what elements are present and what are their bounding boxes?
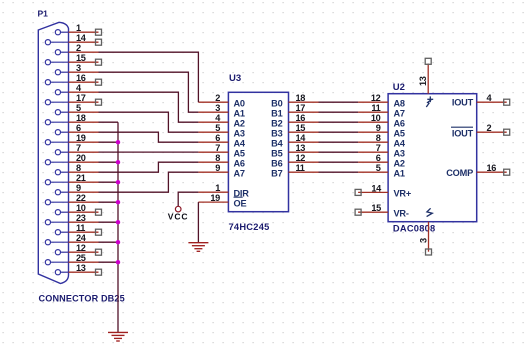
svg-text:B3: B3	[271, 128, 282, 138]
wire U3.B0 to U2.A8	[319, 101, 359, 103]
no-connect square P1 pin 11	[96, 229, 102, 235]
wire U3.B2 to U2.A6	[319, 121, 359, 123]
wire P1.22 to ground bus	[99, 201, 119, 203]
P1 pin 10	[55, 203, 98, 215]
svg-text:17: 17	[76, 93, 86, 103]
wire P1.7 to U3.A5	[99, 151, 199, 153]
svg-text:7: 7	[215, 143, 220, 153]
svg-text:U2: U2	[393, 82, 405, 93]
P1 pin 4	[55, 83, 98, 95]
IC U2 DAC0808 body	[388, 94, 477, 222]
svg-text:A1: A1	[234, 108, 245, 118]
U3 pin 6 (A4)	[198, 133, 246, 148]
P1 pin 16	[45, 73, 98, 85]
svg-text:B6: B6	[271, 158, 282, 168]
svg-text:21: 21	[76, 173, 86, 183]
P1 pin 22	[45, 193, 98, 205]
svg-text:15: 15	[76, 53, 86, 63]
U2 pin 5 (A1)	[358, 163, 405, 178]
svg-text:8: 8	[215, 153, 220, 163]
U3 pin 8 (A6)	[198, 153, 245, 168]
wire U3.OE to ground	[197, 202, 199, 243]
svg-text:11: 11	[296, 163, 305, 173]
svg-text:8: 8	[76, 163, 81, 173]
svg-text:A8: A8	[394, 98, 405, 108]
svg-text:B4: B4	[271, 138, 283, 148]
wire P1.5 to U3.A3	[99, 112, 199, 132]
svg-text:A2: A2	[394, 158, 405, 168]
U2 VCC power arrow glyph (top)	[426, 96, 433, 107]
U3 pin 15 (B3)	[271, 123, 318, 138]
P1 pin 5	[55, 103, 98, 115]
svg-text:6: 6	[376, 153, 381, 163]
svg-text:A7: A7	[234, 168, 245, 178]
svg-text:A1: A1	[394, 168, 405, 178]
svg-text:11: 11	[371, 103, 380, 113]
U2 pin 9 (A5)	[358, 123, 405, 138]
svg-text:18: 18	[296, 93, 306, 103]
svg-text:A6: A6	[394, 118, 405, 128]
U2 pin 2 (IOUT bar)	[451, 123, 507, 139]
svg-text:A4: A4	[234, 138, 246, 148]
wire P1.9 to U3.A7	[99, 172, 199, 192]
U3 pin 17 (B1)	[271, 103, 318, 118]
svg-text:15: 15	[371, 203, 381, 213]
svg-text:25: 25	[76, 253, 86, 263]
P1 pin 25	[45, 253, 98, 265]
svg-text:16: 16	[76, 73, 86, 83]
wire P1.25 to ground bus	[99, 261, 119, 263]
svg-text:VR+: VR+	[394, 189, 412, 199]
P1 pin 1	[55, 23, 98, 35]
svg-text:A6: A6	[234, 158, 245, 168]
no-connect square P1 pin 15	[96, 59, 102, 65]
svg-text:19: 19	[76, 133, 86, 143]
svg-text:2: 2	[487, 123, 492, 133]
svg-text:13: 13	[296, 143, 306, 153]
wire U3.DIR to VCC	[178, 192, 198, 206]
svg-text:A0: A0	[234, 98, 245, 108]
U2 pin 7 (A3)	[358, 143, 405, 158]
svg-text:12: 12	[296, 153, 306, 163]
P1 pin 23	[45, 213, 98, 225]
svg-text:A5: A5	[394, 128, 405, 138]
P1 pin 24	[45, 233, 98, 245]
junction dot P1.23 on ground bus	[116, 220, 120, 224]
U3 pin 14 (B4)	[271, 133, 318, 148]
svg-text:12: 12	[371, 93, 381, 103]
U2 pin 12 (A8)	[358, 93, 405, 108]
U3 pin 1 (DIR)	[198, 183, 249, 198]
svg-text:OE: OE	[234, 198, 247, 208]
svg-text:P1: P1	[38, 9, 49, 19]
no-connect square P1 pin 1	[96, 29, 102, 35]
U2 pin 6 (A2)	[358, 153, 405, 168]
U2 pin 14 (VR+)	[358, 183, 411, 198]
svg-text:19: 19	[210, 193, 220, 203]
svg-text:IOUT: IOUT	[452, 98, 474, 108]
junction dot P1.21 on ground bus	[116, 180, 120, 184]
svg-text:1: 1	[76, 23, 81, 33]
no-connect square U2 pin 3	[426, 249, 432, 255]
U2 VEE power arrow glyph (bottom)	[427, 208, 433, 216]
U2 pin 13 (VCC, top)	[418, 64, 428, 94]
svg-text:12: 12	[76, 243, 86, 253]
svg-text:A7: A7	[394, 108, 405, 118]
ground symbol (DB25 bus)	[108, 332, 128, 341]
svg-text:7: 7	[76, 143, 81, 153]
U3 pin 5 (A3)	[198, 123, 245, 138]
U2 pin 8 (A4)	[358, 133, 406, 148]
wire U3.B4 to U2.A4	[319, 141, 359, 143]
ground symbol (U3 OE)	[188, 243, 208, 252]
no-connect square P1 pin 17	[96, 99, 102, 105]
svg-text:B0: B0	[271, 98, 282, 108]
wire P1.21 to ground bus	[99, 181, 119, 183]
no-connect square P1 pin 10	[96, 209, 102, 215]
svg-text:9: 9	[76, 183, 81, 193]
P1 pin 11	[55, 223, 98, 235]
svg-text:2: 2	[76, 43, 81, 53]
P1 pin 21	[45, 173, 98, 185]
no-connect square P1 pin 13	[96, 269, 102, 275]
svg-text:20: 20	[76, 153, 86, 163]
wire P1.20 to ground bus	[99, 161, 119, 163]
wire P1.2 to U3.A0	[99, 52, 199, 102]
P1 pin 9	[55, 183, 98, 195]
svg-text:VR-: VR-	[394, 208, 409, 218]
P1 pin 6	[55, 123, 98, 135]
wire P1.6 to U3.A4	[99, 132, 199, 142]
svg-text:5: 5	[215, 123, 220, 133]
svg-text:9: 9	[215, 163, 220, 173]
svg-text:7: 7	[376, 143, 381, 153]
wire P1.3 to U3.A1	[99, 72, 199, 112]
ground bus vertical wire	[117, 122, 119, 332]
svg-text:A3: A3	[394, 148, 405, 158]
svg-text:6: 6	[215, 133, 220, 143]
svg-text:14: 14	[296, 133, 307, 143]
svg-text:9: 9	[376, 123, 381, 133]
U3 pin 9 (A7)	[198, 163, 245, 178]
svg-text:6: 6	[76, 123, 81, 133]
svg-text:COMP: COMP	[446, 168, 473, 178]
junction dot P1.20 on ground bus	[116, 160, 120, 164]
svg-text:B2: B2	[271, 118, 282, 128]
wire P1.4 to U3.A2	[99, 92, 199, 122]
no-connect square U2 pin 14	[355, 189, 361, 195]
U2 pin 15 (VR-)	[358, 203, 409, 218]
svg-text:1: 1	[215, 183, 220, 193]
wire U3.B6 to U2.A2	[319, 161, 359, 163]
svg-text:17: 17	[296, 103, 306, 113]
svg-text:74HC245: 74HC245	[229, 222, 270, 232]
U3 pin 12 (B6)	[271, 153, 318, 168]
no-connect square P1 pin 16	[96, 79, 102, 85]
svg-text:A2: A2	[234, 118, 245, 128]
wire P1.8 to U3.A6	[99, 162, 199, 172]
connector P1 body	[38, 22, 68, 283]
svg-text:3: 3	[215, 103, 220, 113]
wire P1.24 to ground bus	[99, 241, 119, 243]
svg-text:3: 3	[76, 63, 81, 73]
P1 pin 13	[55, 263, 98, 275]
U3 pin 3 (A1)	[198, 103, 245, 118]
svg-text:5: 5	[376, 163, 381, 173]
svg-text:A3: A3	[234, 128, 245, 138]
junction dot P1.22 on ground bus	[116, 200, 120, 204]
svg-text:A4: A4	[394, 138, 406, 148]
U2 pin 11 (A7)	[358, 103, 405, 118]
svg-text:15: 15	[296, 123, 306, 133]
svg-text:U3: U3	[229, 73, 241, 84]
wire U3.B5 to U2.A3	[319, 151, 359, 153]
no-connect square U2 pin 4	[504, 99, 510, 105]
U3 pin 18 (B0)	[271, 93, 318, 108]
svg-text:IOUT: IOUT	[452, 129, 474, 139]
wire P1.23 to ground bus	[99, 221, 119, 223]
svg-text:B7: B7	[271, 168, 282, 178]
P1 pin 15	[45, 53, 98, 65]
svg-text:10: 10	[76, 203, 86, 213]
junction dot P1.25 on ground bus	[116, 260, 120, 264]
wire P1.18 to ground bus	[99, 121, 119, 123]
P1 pin 12	[55, 243, 98, 255]
P1 pin 18	[45, 113, 98, 125]
svg-text:23: 23	[76, 213, 86, 223]
P1 pin 8	[55, 163, 98, 175]
no-connect square P1 pin 12	[96, 249, 102, 255]
svg-text:22: 22	[76, 193, 86, 203]
svg-text:16: 16	[487, 163, 497, 173]
U3 pin 11 (B7)	[271, 163, 318, 178]
P1 pin 17	[45, 93, 98, 105]
U2 pin 4 (IOUT)	[452, 93, 507, 108]
svg-text:14: 14	[371, 183, 382, 193]
U3 pin 19 (OE)	[198, 193, 246, 208]
U2 pin 3 (VEE, bottom)	[418, 222, 428, 252]
svg-text:3: 3	[418, 238, 428, 243]
P1 pin 14	[45, 33, 98, 45]
svg-text:14: 14	[76, 33, 87, 43]
svg-text:A5: A5	[234, 148, 245, 158]
U3 pin 16 (B2)	[271, 113, 318, 128]
no-connect square U2 pin 15	[355, 209, 361, 215]
VCC power symbol	[175, 206, 181, 212]
P1 pin 2	[55, 43, 98, 55]
wire U3.B7 to U2.A1	[319, 171, 359, 173]
U3 pin 2 (A0)	[198, 93, 245, 108]
svg-text:B1: B1	[271, 108, 282, 118]
no-connect square U2 pin 2	[504, 129, 510, 135]
svg-text:5: 5	[76, 103, 81, 113]
svg-text:CONNECTOR DB25: CONNECTOR DB25	[39, 294, 125, 304]
svg-text:VCC: VCC	[168, 212, 189, 222]
svg-text:16: 16	[296, 113, 306, 123]
wire U3.B3 to U2.A5	[319, 131, 359, 133]
P1 pin 3	[55, 63, 98, 75]
U2 pin 16 (COMP)	[446, 163, 506, 178]
svg-text:B5: B5	[271, 148, 282, 158]
wire P1.19 to ground bus	[99, 141, 119, 143]
no-connect square U2 pin 16	[504, 169, 510, 175]
U3 pin 7 (A5)	[198, 143, 245, 158]
op IC U3 74HC245 body	[228, 92, 288, 211]
junction dot P1.19 on ground bus	[116, 140, 120, 144]
P1 pin 19	[45, 133, 98, 145]
svg-text:2: 2	[215, 93, 220, 103]
U3 pin 4 (A2)	[198, 113, 245, 128]
P1 pin 7	[55, 143, 98, 155]
no-connect square P1 pin 14	[96, 39, 102, 45]
P1 pin 20	[45, 153, 98, 165]
svg-text:8: 8	[376, 133, 381, 143]
U3 pin 13 (B5)	[271, 143, 318, 158]
junction dot P1.24 on ground bus	[116, 240, 120, 244]
svg-text:11: 11	[76, 223, 85, 233]
U2 pin 10 (A6)	[358, 113, 405, 128]
no-connect square U2 pin 13	[425, 58, 431, 64]
svg-text:18: 18	[76, 113, 86, 123]
svg-text:10: 10	[371, 113, 381, 123]
svg-text:24: 24	[76, 233, 87, 243]
svg-text:13: 13	[76, 263, 86, 273]
svg-text:13: 13	[418, 76, 428, 86]
wire U3.B1 to U2.A7	[319, 111, 359, 113]
